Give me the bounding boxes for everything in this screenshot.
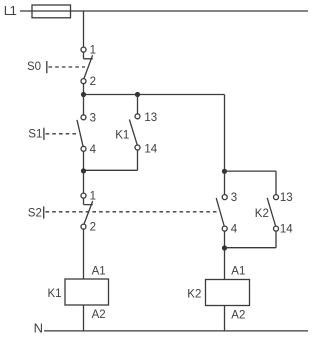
pushbutton S2 left pole (NC contact, pins 1-2) (28, 171, 217, 234)
svg-text:14: 14 (144, 143, 157, 155)
contact K1 13-14 (NO aux contact) (85, 95, 158, 171)
svg-text:2: 2 (90, 76, 96, 88)
svg-text:3: 3 (231, 192, 237, 204)
svg-text:1: 1 (90, 191, 96, 203)
svg-text:K2: K2 (187, 288, 201, 300)
svg-text:A2: A2 (231, 309, 245, 321)
pushbutton S0 (NC contact, pins 1-2) (27, 45, 96, 89)
node junction A (81, 92, 86, 97)
wire rung to right branch (84, 94, 225, 96)
wire right branch drop (224, 95, 226, 172)
wire L1 rail (20, 10, 308, 12)
wire drop from L1 rail to S0 (83, 11, 85, 47)
svg-text:13: 13 (144, 112, 157, 124)
wire S0 to junction A (83, 84, 85, 95)
svg-text:1: 1 (90, 45, 96, 57)
svg-text:14: 14 (280, 224, 293, 236)
contact K2 13-14 (NO aux contact) (225, 171, 294, 248)
pushbutton S1 (NO contact, pins 3-4) (28, 95, 96, 156)
svg-text:N: N (34, 321, 43, 336)
node junction C (81, 168, 86, 173)
node junction E (222, 245, 227, 250)
node junction B (K1 branch top) (135, 92, 140, 97)
svg-text:L1: L1 (4, 3, 17, 18)
coil K1 (A1-A2) (48, 266, 109, 331)
svg-text:A1: A1 (92, 266, 106, 278)
svg-text:3: 3 (90, 112, 96, 124)
svg-text:4: 4 (90, 144, 97, 156)
node L1 (4, 3, 17, 18)
svg-text:K1: K1 (115, 130, 129, 142)
svg-text:K2: K2 (255, 208, 269, 220)
wire junction E to coil K2 (224, 248, 226, 280)
svg-text:K1: K1 (48, 288, 62, 300)
node N (34, 321, 43, 336)
svg-text:4: 4 (231, 224, 238, 236)
svg-text:A1: A1 (231, 266, 245, 278)
wire S2 to coil K1 (83, 229, 85, 279)
pushbutton S2 right pole (NO contact, pins 3-4) (216, 171, 238, 248)
wire S1 to junction C (83, 151, 85, 171)
wire N rail (44, 330, 308, 332)
svg-text:A2: A2 (92, 309, 106, 321)
svg-text:13: 13 (280, 192, 293, 204)
node junction D (222, 169, 227, 174)
svg-text:2: 2 (90, 222, 96, 234)
svg-text:S1: S1 (28, 129, 42, 141)
fuse F1 (32, 5, 71, 18)
coil K2 (A1-A2) (187, 266, 249, 331)
svg-text:S0: S0 (27, 61, 41, 73)
svg-text:S2: S2 (28, 208, 42, 220)
